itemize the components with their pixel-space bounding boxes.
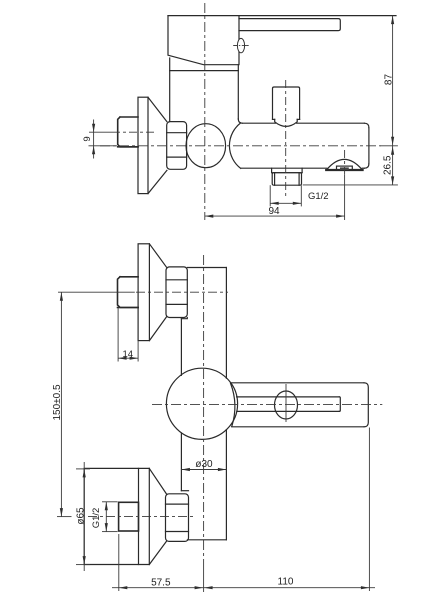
svg-text:G1/2: G1/2 [308, 191, 329, 202]
svg-text:87: 87 [383, 74, 394, 86]
svg-text:9: 9 [82, 136, 93, 141]
svg-text:14: 14 [123, 349, 134, 360]
svg-text:57.5: 57.5 [151, 578, 171, 589]
svg-text:110: 110 [278, 577, 294, 588]
svg-text:G1/2: G1/2 [91, 508, 102, 529]
svg-text:26.5: 26.5 [383, 155, 394, 175]
svg-text:ø65: ø65 [76, 507, 87, 525]
svg-text:ø30: ø30 [195, 459, 213, 470]
svg-text:150±0.5: 150±0.5 [52, 384, 63, 421]
svg-text:94: 94 [268, 206, 280, 217]
